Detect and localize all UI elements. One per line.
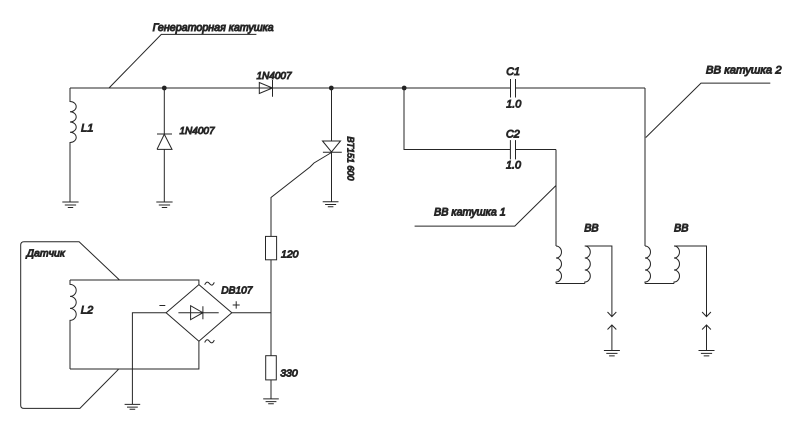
wire (diode D2 to ground) xyxy=(163,149,165,202)
ac tilde bottom xyxy=(205,340,215,343)
bridge rectifier DB107 diamond xyxy=(166,285,232,342)
spark gap arrow down (T1) xyxy=(608,312,617,317)
transformer T1 secondary winding xyxy=(585,246,591,284)
wire gate (thyristor gate to R1) xyxy=(271,153,332,237)
leader (ВВ катушка 1) xyxy=(415,186,556,227)
node C junction xyxy=(402,86,407,91)
svg-text:1.0: 1.0 xyxy=(506,99,521,111)
diode D1 1N4007 series xyxy=(259,80,272,97)
svg-text:Датчик: Датчик xyxy=(26,248,66,260)
ac tilde top xyxy=(205,282,215,285)
ground (spark gap T2) xyxy=(699,351,715,356)
svg-text:ВВ катушка 1: ВВ катушка 1 xyxy=(434,207,506,219)
ground (thyristor) xyxy=(323,202,339,207)
inductor L1 xyxy=(70,88,76,202)
wire (T1 secondary to spark gap) xyxy=(585,246,612,317)
svg-text:1.0: 1.0 xyxy=(506,159,521,171)
wire (L2 bottom to bridge) xyxy=(70,341,199,369)
transformer T1 bottom link xyxy=(556,283,585,285)
wire main bus left xyxy=(70,87,511,89)
svg-text:C2: C2 xyxy=(506,128,520,140)
transformer T2 secondary winding xyxy=(674,246,680,284)
svg-text:C1: C1 xyxy=(506,66,520,78)
svg-text:ВВ катушка 2: ВВ катушка 2 xyxy=(706,64,782,76)
svg-text:120: 120 xyxy=(281,248,299,260)
svg-text:L1: L1 xyxy=(81,122,93,134)
resistor R2 330 xyxy=(266,356,277,380)
wire (junction B to thyristor) xyxy=(331,88,333,141)
sensor box Датчик xyxy=(21,242,120,409)
wire (thyristor cathode to ground) xyxy=(331,152,333,201)
leader (Генераторная катушка) xyxy=(109,34,256,88)
transformer T2 bottom link xyxy=(645,283,674,285)
ground (spark gap T1) xyxy=(604,351,620,356)
svg-text:BT151 600: BT151 600 xyxy=(346,137,356,181)
transformer T2 primary winding xyxy=(645,246,651,284)
ground (D2) xyxy=(156,202,172,208)
wire (junction C down and to C2) xyxy=(404,88,510,150)
wire (R2 to ground) xyxy=(270,380,272,399)
resistor R1 120 xyxy=(266,236,277,259)
wire (bridge plus to R node) xyxy=(232,312,271,314)
capacitor C1 xyxy=(511,79,516,98)
wire (main bus to transformer T2) xyxy=(644,88,646,246)
leader (ВВ катушка 2) xyxy=(646,83,771,137)
ground (bridge minus) xyxy=(125,404,141,409)
svg-text:ВВ: ВВ xyxy=(674,223,688,235)
wire (bridge minus to ground) xyxy=(132,313,166,405)
transformer T1 primary winding xyxy=(556,246,562,284)
spark gap arrow up (T2) xyxy=(702,325,711,351)
wire (L2 top to bridge) xyxy=(70,280,199,285)
wire (C2 to transformer T1) xyxy=(516,150,557,247)
capacitor C2 xyxy=(510,140,515,159)
wire (T2 secondary to spark gap) xyxy=(674,246,707,317)
wire main bus right xyxy=(516,87,646,89)
node A junction xyxy=(162,86,167,91)
svg-text:1N4007: 1N4007 xyxy=(180,126,215,137)
svg-text:ВВ: ВВ xyxy=(584,223,598,235)
minus sign xyxy=(159,305,165,307)
plus sign xyxy=(233,301,240,308)
wire (junction A to diode D2) xyxy=(163,88,165,134)
diode D2 1N4007 shunt xyxy=(157,134,172,149)
spark gap arrow up (T1) xyxy=(608,325,617,351)
node B junction xyxy=(329,86,334,91)
wire (R1 to R2 through + node) xyxy=(270,260,272,356)
svg-text:1N4007: 1N4007 xyxy=(257,71,292,82)
inductor L2 xyxy=(70,280,76,369)
spark gap arrow down (T2) xyxy=(702,312,711,317)
ground (R2) xyxy=(263,399,279,404)
svg-text:330: 330 xyxy=(280,368,298,380)
bridge internal diode xyxy=(178,306,218,320)
svg-text:Генераторная катушка: Генераторная катушка xyxy=(153,22,274,34)
svg-text:L2: L2 xyxy=(81,304,94,316)
thyristor Q1 BT151 xyxy=(323,141,342,152)
svg-text:DB107: DB107 xyxy=(221,285,252,296)
ground (L1) xyxy=(62,202,78,208)
